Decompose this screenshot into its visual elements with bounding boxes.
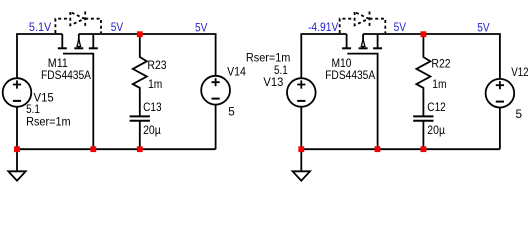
wire bottom rail right circuit <box>301 148 500 150</box>
wire V12 bottom <box>499 108 501 150</box>
node junction bottom V15 <box>14 146 20 152</box>
resistor R22 <box>416 34 430 116</box>
node junction bottom gate M10 <box>375 146 381 152</box>
ground right <box>300 149 302 171</box>
svg-text:C12: C12 <box>427 101 446 114</box>
svg-text:FDS4435A: FDS4435A <box>41 69 91 82</box>
svg-text:-4.91V: -4.91V <box>308 21 338 34</box>
svg-text:5.1: 5.1 <box>26 103 40 116</box>
svg-text:1m: 1m <box>148 78 162 91</box>
wire V15 bottom <box>16 107 18 149</box>
svg-text:V14: V14 <box>227 65 246 78</box>
svg-text:V13: V13 <box>263 76 283 89</box>
svg-text:C13: C13 <box>143 101 162 114</box>
node junction bottom RC left <box>137 146 143 152</box>
svg-text:5V: 5V <box>111 21 124 34</box>
svg-text:FDS4435A: FDS4435A <box>325 69 375 82</box>
svg-text:5V: 5V <box>394 21 407 34</box>
wire bottom rail left circuit <box>17 148 216 150</box>
svg-text:R23: R23 <box>147 59 166 72</box>
wire V15 top to MOSFET source <box>17 34 62 78</box>
transistor M10 FDS4435A <box>342 34 382 149</box>
node junction top left <box>137 31 143 37</box>
body diode of M11 (dashed) <box>55 12 101 34</box>
ground left <box>16 149 18 171</box>
transistor M11 FDS4435A <box>58 34 98 149</box>
svg-text:5V: 5V <box>477 22 490 35</box>
svg-text:5: 5 <box>516 108 523 121</box>
capacitor C12 <box>413 116 433 120</box>
svg-text:5: 5 <box>228 105 235 118</box>
svg-text:Rser=1m: Rser=1m <box>26 116 71 129</box>
wire V13 top to MOSFET source <box>301 34 346 78</box>
svg-text:5.1V: 5.1V <box>29 21 52 34</box>
wire MOSFET drain to corner and down to V12 <box>363 34 500 79</box>
capacitor C13 <box>130 116 150 120</box>
svg-text:R22: R22 <box>431 57 450 70</box>
svg-text:Rser=1m: Rser=1m <box>246 51 291 64</box>
node junction bottom gate M11 <box>90 146 96 152</box>
voltage source V15 <box>3 78 32 107</box>
voltage source V13 <box>287 78 316 107</box>
body diode of M10 (dashed) <box>340 12 386 34</box>
node junction bottom V13 <box>298 146 304 152</box>
wire MOSFET drain to corner and down to V14 <box>79 34 216 76</box>
svg-text:V12: V12 <box>511 66 528 79</box>
resistor R23 <box>133 34 147 116</box>
svg-text:1m: 1m <box>432 78 446 91</box>
node junction bottom RC right <box>421 146 427 152</box>
node junction top right <box>421 31 427 37</box>
voltage source V14 <box>201 76 230 105</box>
wire V13 bottom <box>300 107 302 149</box>
voltage source V12 <box>486 79 515 108</box>
svg-text:5V: 5V <box>195 21 208 34</box>
svg-text:20µ: 20µ <box>143 124 161 137</box>
wire V14 bottom <box>215 105 217 150</box>
svg-text:20µ: 20µ <box>427 124 445 137</box>
